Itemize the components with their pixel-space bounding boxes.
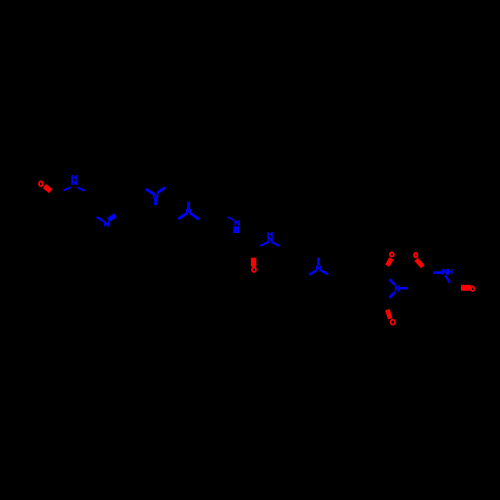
wire: amide N to aryl C half-bond — [78, 187, 85, 190]
piperazine N1 half-bond up-left — [146, 189, 154, 194]
phthalimide N label — [396, 285, 400, 291]
oxygen O of glutarimide right carbonyl — [471, 286, 474, 291]
wire: aryl C to pyridine N half-bond — [97, 217, 104, 221]
piperazine N1 half-bond down — [154, 197, 157, 205]
piperazine N4 half-bond down-right — [191, 213, 199, 219]
acetamide C=O double bond (merged) — [44, 186, 50, 191]
tertiary amine N label — [317, 266, 321, 271]
amine N half-bond down-right — [321, 271, 328, 275]
oxygen O of acetamide carbonyl — [39, 181, 43, 186]
phthalimide bottom C=O double bond (merged) — [387, 310, 390, 319]
pyridine N label — [105, 221, 109, 226]
glutarimide N half-bond left — [433, 271, 443, 274]
piperazine N4 half-bond up — [187, 202, 190, 210]
oxygen O of central amide — [252, 267, 256, 272]
amide N-H label (central amide, H stacked over N) — [268, 232, 272, 237]
piperazine N1 half-bond up-right — [157, 188, 165, 193]
wire: chain C to imine N half-bond — [228, 217, 234, 220]
oxygen O of glutarimide top carbonyl — [414, 253, 417, 258]
glutarimide right C=O double bond (merged, horizontal) — [461, 285, 471, 291]
phthalimide N half-bond up-left — [389, 279, 395, 285]
piperazine N4 label — [187, 209, 191, 214]
wire: acetamide carbonyl C to amide N half-bond — [64, 187, 71, 190]
phthalimide N to glutarimide C3 half-bond — [400, 287, 408, 290]
central amide C=O double bond (merged, vertical) — [251, 258, 256, 267]
amine N half-bond up — [317, 258, 320, 266]
amide N-H label (acetamide NH, H stacked over N) — [72, 175, 76, 180]
imine C=N double bond (merged, vertical) — [233, 226, 239, 233]
amine N half-bond down-left — [309, 271, 316, 275]
pyridine C=N aromatic double bond (merged) — [108, 215, 115, 220]
imine N label — [235, 220, 239, 225]
piperazine N1 label — [154, 193, 158, 198]
wire: central amide N to chain C half-bond — [271, 242, 279, 246]
phthalimide top C=O double bond (merged) — [387, 258, 391, 265]
glutarimide top C=O double bond (merged) — [416, 259, 423, 266]
piperazine N4 half-bond down-left — [178, 213, 187, 219]
wire: central amide N to carbonyl C half-bond — [260, 242, 269, 246]
oxygen O of phthalimide top carbonyl — [390, 252, 394, 256]
glutarimide N half-bond down-right — [445, 275, 450, 283]
glutarimide N-H label (N then H horizontally) — [443, 269, 447, 275]
oxygen O of phthalimide bottom carbonyl — [391, 320, 395, 325]
phthalimide N half-bond down-left — [389, 292, 395, 298]
